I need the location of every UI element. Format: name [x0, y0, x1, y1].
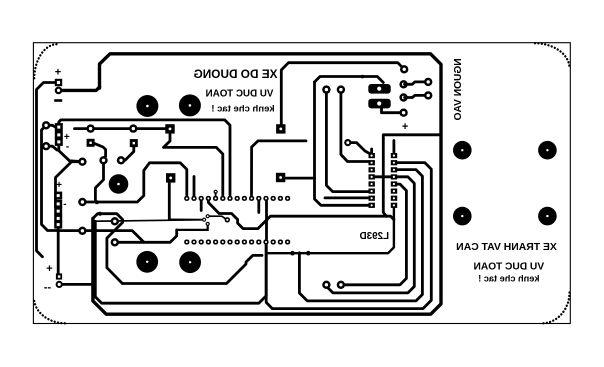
big square pad 280-128 [276, 124, 285, 133]
via pad 428-81 [424, 78, 432, 86]
tiny pad 204-219 [202, 218, 206, 222]
via pad 428-95 [424, 91, 432, 99]
connector battery bottom: square pad [56, 273, 62, 279]
wire vertical riser x=99.5 top loop [93, 54, 441, 314]
wire minus pad bottom H [61, 283, 93, 286]
board outline [33, 43, 570, 324]
svg-text:XE DO DUONG: XE DO DUONG [194, 67, 278, 81]
wire pad46-125 jog to sq1 [46, 125, 56, 127]
connector battery bottom: round pad [56, 281, 63, 288]
mounting hole H7 [538, 141, 557, 160]
wire sq90-142 to pad103-160 [94, 143, 106, 158]
wire H140 dot stub from V251 [252, 141, 307, 195]
wire pad341 V down to H162 DIP pad2 [341, 90, 369, 162]
via pad 403-97 [399, 93, 407, 101]
mounting hole H9 [538, 207, 557, 226]
wire V281 from H62 to sq pad [281, 63, 404, 125]
wire DIP pad8R down to H253 [267, 205, 394, 253]
square pad 90-142 [87, 139, 95, 147]
wire DIP inter-column bus [372, 175, 394, 178]
wire H230 from pad82 to stub [177, 224, 208, 230]
wire DIP pad5R to V406 pads line [341, 184, 407, 285]
via pad 90-129 [86, 124, 94, 132]
via pad 114-242 [111, 238, 119, 246]
big square pad 170-128 [165, 124, 174, 133]
IC L293D pads left column [369, 153, 375, 208]
wire pad114-220 thin to tiny pad [94, 220, 203, 221]
wire thin H197 dot stub to DIP pad7 [325, 196, 369, 199]
corner arc top-left [34, 44, 56, 79]
wire pad114-242 H right diag up [115, 230, 177, 242]
corner arc bottom-left [34, 298, 65, 324]
wire H y=121 long to DIP pad6 [59, 120, 230, 195]
via pad 404-69 [400, 65, 408, 73]
svg-text:kenh che tac !: kenh che tac ! [211, 104, 274, 115]
via pad 326-89 [322, 85, 330, 93]
tiny pad 207-223 [206, 222, 210, 226]
via pad 341-89 [337, 85, 345, 93]
via pad 347-142 [344, 139, 351, 146]
wire sq280-177 H right to V311 [285, 177, 315, 180]
wire thick H y=216.3 to V394 [208, 200, 394, 229]
via pad 403-112 [399, 109, 407, 117]
mounting hole H6 [453, 141, 472, 160]
diode bar D1 [368, 84, 390, 94]
svg-text:+: + [55, 67, 61, 79]
svg-text:--: -- [44, 282, 52, 294]
via pad 133-128 [129, 124, 137, 132]
wire pad103 down to H202 [95, 164, 103, 200]
wire DIP col top stubs [370, 149, 373, 153]
wire jumper 403-97 to 428-95 [405, 95, 428, 97]
svg-text:NGUON VAO: NGUON VAO [453, 58, 464, 120]
wire jumper 403-84 to 428-81 [405, 82, 428, 84]
wire sq133-143 diag to pad103-160 [123, 147, 134, 161]
tiny pad 227-219 [225, 217, 230, 222]
via pad 403-84 [399, 80, 407, 88]
via pad 326-284 [322, 281, 330, 289]
header row1 pads y=198.3 [184, 196, 290, 201]
svg-text:+: + [402, 121, 408, 133]
terminal block 1 squares x=58.8 [55, 123, 63, 131]
mounting hole H5 [179, 251, 201, 273]
text XE TRANH VAT CAN (mirrored) [456, 242, 557, 253]
junction dot on H253 [306, 251, 311, 256]
wire H135 from V382 to V441 [383, 135, 441, 139]
wire V382 center down from H135 [383, 139, 386, 216]
via pad 82-202 [78, 198, 86, 206]
wire V266 between rows to outer bundle [266, 163, 431, 309]
square pad 133-143 [130, 139, 138, 147]
text NGUON VAO (mirrored, vertical) [453, 58, 464, 120]
via pad 82-231 [78, 227, 86, 235]
text XE DO DUONG (mirrored) [194, 67, 278, 81]
mounting hole H4 [136, 251, 158, 273]
via pad 82-161 [78, 158, 86, 166]
connector battery top: round pad [55, 87, 63, 95]
mounting hole H2 [179, 94, 201, 116]
svg-text:-: - [63, 199, 66, 210]
wire envelope bottom-left motor loop [93, 214, 262, 284]
wire bottom-left H y=303 [95, 221, 266, 303]
via pad 103-160 [99, 156, 107, 164]
connector battery top: square pad [55, 79, 62, 86]
wire pad3 stub down [200, 200, 203, 211]
via pad 46-125 [42, 121, 50, 129]
junction dot on H202 [95, 200, 99, 204]
mounting hole H1 [136, 95, 158, 117]
wire terminal sq5 down to battery plus bottom [57, 226, 60, 274]
terminal block 2 squares x=58.2 [54, 192, 62, 200]
diode bar D2 [368, 99, 390, 109]
wire battery top - pad to vertical riser [60, 87, 100, 90]
wire thin H216 [169, 218, 202, 220]
wire V266 rows link [265, 201, 268, 239]
text L293D (mirrored) [360, 231, 389, 242]
corner arc bottom-right [542, 293, 570, 324]
svg-text:XE TRANH VAT CAN: XE TRANH VAT CAN [456, 242, 557, 253]
wire sq pad170 down to H147 to DIP pad [164, 133, 223, 195]
wire H y=129 cluster to sq pad 170 [75, 127, 169, 130]
wire arch pad82-202 to DIP pad1 [82, 163, 186, 202]
text kenh che tac ! bottom (mirrored) [478, 273, 539, 283]
corner arc top-right [535, 43, 570, 68]
mounting hole H3 [109, 174, 129, 194]
wire D2 to pad 403-112 [382, 107, 404, 113]
wire pad326 V down to H191 DIP pad6 [326, 90, 369, 192]
IC L293D pads right column [391, 153, 397, 208]
big square pad 170-177 [166, 173, 175, 182]
wire DIP row1 pad stubs down [257, 201, 260, 213]
svg-text:VU DUC TOAN: VU DUC TOAN [474, 261, 545, 272]
via pad 114-221 [111, 217, 119, 225]
junction dot on H76 [361, 75, 365, 79]
wire battery top + pad to left rail [37, 83, 56, 257]
wire pad46-125 to left rail2 down [42, 125, 59, 230]
wire sq170-177 down to thin H216 [168, 183, 171, 220]
via pad 46-146 [42, 142, 50, 150]
svg-text:+: + [46, 263, 52, 275]
wire sq3 down diag to pad 82-161 [59, 144, 83, 162]
text VU DUC TOAN bottom (mirrored) [474, 261, 545, 272]
via pad 340-284 [337, 281, 345, 289]
text VU DUC TOAN top (mirrored) [206, 89, 274, 100]
wire DIP pad3R to V422 H300 V299 [299, 170, 422, 301]
label - top [54, 99, 62, 102]
wire pad46-146 stub [46, 146, 57, 150]
header row2 pads y=242.3 [184, 240, 290, 245]
tiny pad 214-192 with stub [214, 190, 218, 194]
svg-text:VU DUC TOAN: VU DUC TOAN [206, 89, 274, 100]
tiny pad 207-216 [206, 214, 210, 218]
junction dot on H213 [98, 212, 102, 216]
wire H76 from V311 to rect [315, 77, 384, 83]
text kenh che tac ! top (mirrored) [211, 104, 274, 115]
svg-text:kenh che tac !: kenh che tac ! [478, 273, 539, 283]
wire pad347-142 to DIP pad1 [348, 143, 370, 154]
wire DIP pad4R to V414 H292 pad326 [326, 177, 414, 293]
wire pad82-161 H left [56, 162, 83, 211]
svg-text:+: + [56, 180, 62, 191]
wire pad2 stub up [193, 177, 196, 197]
big square pad 280-177 [276, 173, 285, 182]
via pad 121-160 [117, 156, 125, 164]
wire V311 upper to DIP pad8 [315, 82, 370, 205]
mounting hole H8 [453, 207, 472, 226]
svg-text:L293D: L293D [360, 231, 389, 242]
svg-text:-: - [66, 141, 69, 152]
wire thin diag pads [208, 216, 227, 219]
junction dot on H253 [290, 251, 295, 256]
wire H y=231.6 to pad 82 [58, 231, 144, 243]
